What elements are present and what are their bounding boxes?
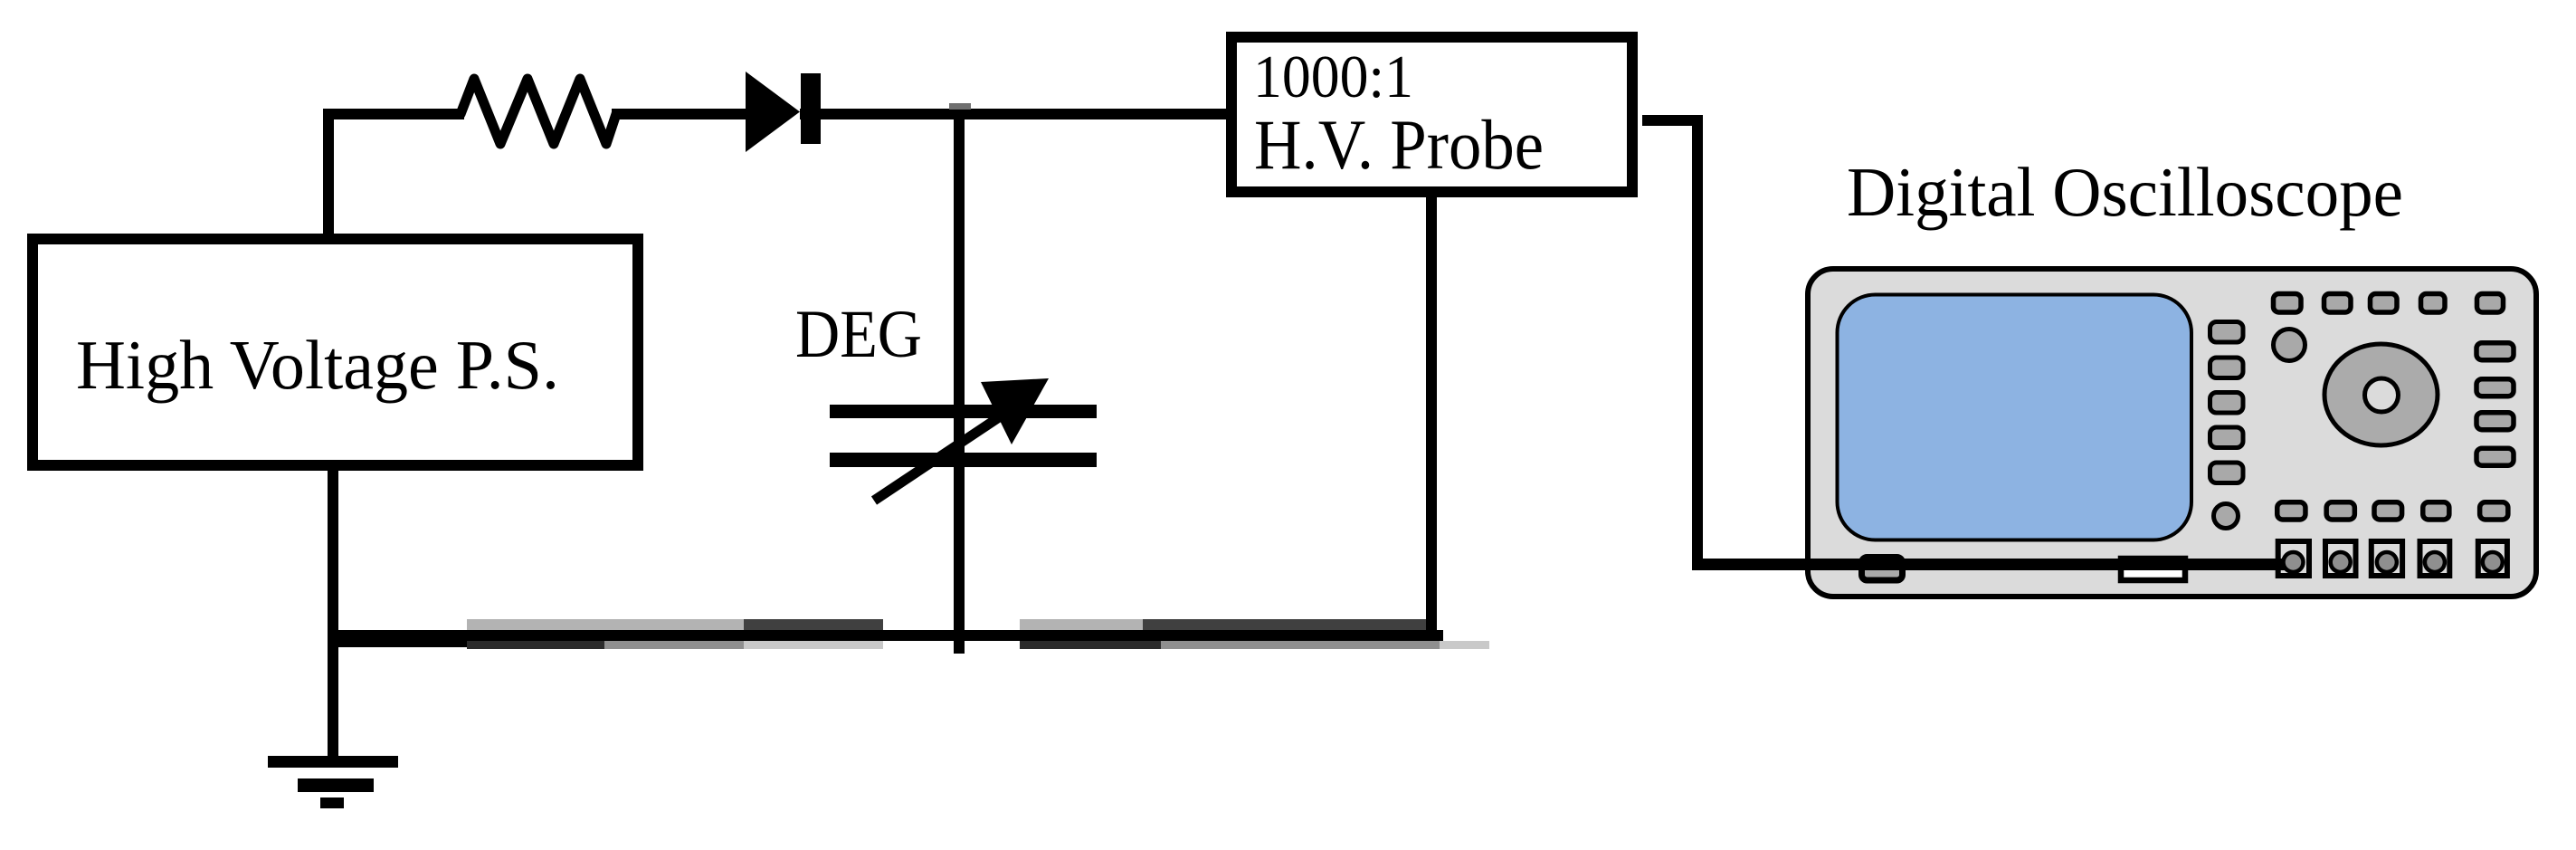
ground [268, 756, 398, 808]
wire: ground bus shading overlay [328, 619, 1489, 649]
wire: probe cable to oscilloscope [1693, 559, 2296, 570]
wire: DEG branch vertical [954, 114, 965, 654]
wire: probe output vertical [1692, 115, 1703, 570]
svg-text:1000:1: 1000:1 [1253, 43, 1413, 110]
oscilloscope front tab (white) [2121, 559, 2185, 580]
oscilloscope button: round lower-left [2214, 504, 2239, 529]
wire: bottom ground bus [328, 630, 1443, 641]
oscilloscope BNC connector row [2278, 541, 2507, 576]
svg-text:H.V. Probe: H.V. Probe [1254, 105, 1544, 184]
wire: diode to probe segment [800, 109, 1226, 119]
oscilloscope top button row [2274, 294, 2504, 313]
wire: HV supply bottom lead [328, 471, 338, 759]
oscilloscope softkey column (left) [2210, 322, 2244, 483]
capacitor C1 bottom plate [830, 453, 1097, 467]
diode D1 cathode bar [801, 73, 821, 144]
oscilloscope small knob [2274, 329, 2305, 361]
box: 1000:1 H.V. Probe [1231, 37, 1632, 192]
wire: HV supply top lead (vertical) [323, 109, 334, 237]
oscilloscope screen [1838, 295, 2192, 540]
variable capacitor arrow shaft [874, 405, 1018, 501]
wire: top bus left segment [323, 109, 464, 119]
svg-text:DEG: DEG [795, 297, 922, 372]
oscilloscope U1 body [1808, 269, 2536, 597]
wire: probe output stub [1642, 115, 1703, 126]
oscilloscope lower button row [2277, 502, 2508, 520]
svg-text:High Voltage P.S.: High Voltage P.S. [76, 326, 559, 404]
capacitor C1 top plate [830, 405, 1097, 418]
svg-text:Digital Oscilloscope: Digital Oscilloscope [1847, 153, 2403, 231]
wire: resistor to diode segment [612, 109, 747, 119]
oscilloscope big knob [2324, 344, 2438, 445]
wire: probe ground lead [1426, 197, 1437, 630]
node A: junction nub above top bus [949, 103, 971, 110]
resistor R1 [461, 79, 616, 144]
oscilloscope front tab (dark) [1862, 558, 1903, 581]
variable capacitor arrow head [981, 378, 1049, 444]
diode D1 anode triangle [746, 72, 800, 152]
oscilloscope right button column [2476, 343, 2514, 466]
oscilloscope big knob hub [2365, 378, 2399, 412]
box: High Voltage P.S. [33, 239, 638, 465]
